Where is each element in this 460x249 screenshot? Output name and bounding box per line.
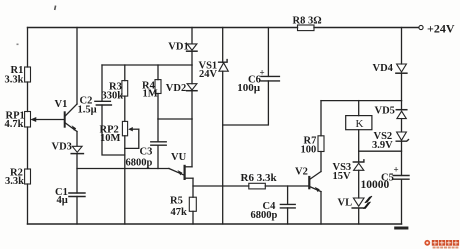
watermark text blocks bbox=[432, 240, 459, 246]
svg-text:+24V: +24V bbox=[427, 21, 455, 35]
diode VD4 bbox=[396, 64, 407, 73]
svg-text:V2: V2 bbox=[295, 166, 308, 177]
wire sub rail bbox=[102, 64, 192, 66]
wire VL to bottom rail bbox=[358, 208, 360, 224]
wire VS3 to VL bbox=[358, 170, 360, 198]
wire C5 to bottom rail bbox=[401, 179, 403, 224]
svg-text:3.9V: 3.9V bbox=[372, 140, 393, 151]
wire V2 emitter to bottom rail bbox=[320, 192, 322, 224]
wire C2 top to sub rail bbox=[101, 65, 103, 101]
wire R2 to bottom rail bbox=[27, 184, 29, 224]
wire VD1 to sub rail node bbox=[191, 51, 193, 65]
scan speck top bbox=[54, 5, 57, 10]
wire VS2 to C5 bbox=[401, 141, 403, 175]
wire RP1 to R2 bbox=[27, 127, 29, 169]
wire left rail segment R1 top bbox=[27, 28, 29, 68]
wire V1 collector to top rail bbox=[76, 28, 78, 105]
wire node to C3 bbox=[157, 119, 159, 142]
capacitor C3 bbox=[151, 142, 166, 145]
svg-text:15V: 15V bbox=[333, 171, 352, 182]
wire node A horizontal bbox=[321, 100, 402, 102]
wire top supply rail right of R8 bbox=[314, 27, 419, 29]
svg-text:3.3k: 3.3k bbox=[5, 176, 24, 187]
svg-text:VD5: VD5 bbox=[375, 106, 395, 117]
svg-text:+: + bbox=[394, 164, 399, 174]
watermark logo icon bbox=[424, 240, 430, 246]
svg-text:VD2: VD2 bbox=[166, 83, 186, 94]
wire VD5 to VS2 bbox=[401, 119, 403, 132]
wire VS1 anode to bottom rail bbox=[222, 71, 224, 224]
wire VS1 branch top bbox=[222, 28, 224, 63]
zener diode VS2 bbox=[396, 132, 408, 141]
resistor R3 bbox=[122, 81, 128, 97]
wire R4 bottom to node bbox=[157, 94, 159, 120]
resistor R5 bbox=[189, 197, 196, 211]
capacitor C6 bbox=[261, 76, 279, 81]
wire top supply rail left of R8 bbox=[28, 27, 298, 29]
diode VD5 bbox=[396, 110, 407, 119]
transistor V1 bbox=[65, 104, 77, 132]
diode VD2 bbox=[187, 84, 197, 91]
resistor R7 bbox=[318, 136, 324, 152]
wire VS1 line to C6 bottom bbox=[223, 81, 269, 125]
wire C2 bottom to RP2 line bbox=[102, 105, 125, 155]
wire C1 to bottom rail bbox=[76, 197, 78, 225]
svg-text:VD1: VD1 bbox=[168, 41, 188, 52]
svg-text:24V: 24V bbox=[199, 69, 218, 80]
wire R7 top stub bbox=[320, 101, 322, 136]
wire R4 node to VD2 node bbox=[158, 118, 192, 120]
svg-text:100: 100 bbox=[301, 145, 317, 156]
wire C4 top stub bbox=[287, 186, 289, 204]
wire R4 top stub bbox=[157, 65, 159, 80]
potentiometer RP2 bbox=[122, 121, 138, 148]
svg-text:VD4: VD4 bbox=[373, 63, 394, 74]
svg-text:100µ: 100µ bbox=[237, 82, 261, 94]
resistor R1 bbox=[25, 67, 31, 82]
wire relay K bottom to VS3 bbox=[358, 130, 360, 162]
transistor VU unijunction bbox=[169, 166, 193, 179]
wire VD2 top stub bbox=[191, 65, 193, 84]
svg-text:C3: C3 bbox=[140, 147, 153, 158]
svg-text:10000: 10000 bbox=[361, 179, 390, 191]
capacitor C1 bbox=[69, 193, 85, 197]
wire VD3 node to VU emitter bbox=[77, 168, 169, 170]
wire C3 bottom to emitter line bbox=[157, 145, 159, 168]
wire C4 to bottom rail bbox=[287, 208, 289, 224]
wire R3 top stub bbox=[124, 65, 126, 81]
svg-text:VL: VL bbox=[338, 197, 353, 208]
node +24V terminal bbox=[419, 25, 423, 29]
potentiometer RP1 bbox=[25, 112, 31, 128]
svg-text:+: + bbox=[260, 68, 265, 78]
wire V2 collector to R7 bbox=[320, 152, 322, 172]
wire R1 to RP1 bbox=[27, 82, 29, 112]
resistor R8 bbox=[298, 25, 315, 31]
svg-text:R8 3Ω: R8 3Ω bbox=[293, 16, 322, 27]
zener diode VS1 bbox=[219, 60, 229, 72]
wire VU node to R6 bbox=[193, 185, 249, 187]
wire RP2 lower line crossing bbox=[124, 136, 126, 224]
wire VD3 to C1 bbox=[76, 154, 78, 193]
wire R3 to RP2 bbox=[124, 96, 126, 121]
wire VU base1 down to R5 node bbox=[192, 178, 194, 197]
svg-text:VD3: VD3 bbox=[52, 142, 72, 153]
wire VU base2 up to VD2 node bbox=[191, 119, 193, 167]
wire bottom ground rail bbox=[28, 223, 402, 225]
svg-text:VU: VU bbox=[171, 152, 187, 163]
wire R5 to bottom rail bbox=[192, 211, 194, 224]
wire RP1 wiper to V1 base bbox=[30, 117, 63, 122]
svg-text:4.7k: 4.7k bbox=[5, 119, 24, 130]
wire VD2 bottom stub bbox=[191, 91, 193, 119]
ground symbol at rail end bbox=[396, 227, 407, 230]
diode VD3 bbox=[71, 146, 83, 153]
capacitor C2 bbox=[95, 101, 112, 105]
svg-text:K: K bbox=[356, 118, 364, 130]
svg-text:R5: R5 bbox=[170, 196, 183, 207]
svg-text:3.3k: 3.3k bbox=[5, 74, 24, 85]
wire VS3 node to VS2 node bbox=[359, 150, 402, 152]
wire V1 emitter to VD3 bbox=[76, 132, 78, 147]
capacitor C4 bbox=[280, 204, 295, 208]
resistor R6 bbox=[249, 183, 265, 189]
wire VD1 top stub bbox=[191, 28, 193, 44]
svg-text:6800p: 6800p bbox=[126, 158, 153, 169]
resistor R4 bbox=[155, 80, 161, 94]
svg-text:R6 3.3k: R6 3.3k bbox=[241, 172, 278, 184]
transistor V2 bbox=[309, 172, 321, 193]
svg-text:1.5µ: 1.5µ bbox=[78, 104, 97, 115]
wire R6 to V2 base bbox=[265, 185, 309, 187]
wire VD4 to node A bbox=[401, 73, 403, 100]
wire node A to VD5 bbox=[401, 101, 403, 110]
zener diode VS3 bbox=[353, 160, 364, 171]
svg-text:V1: V1 bbox=[55, 99, 68, 110]
resistor R2 bbox=[25, 169, 31, 184]
svg-text:4µ: 4µ bbox=[57, 195, 68, 206]
LED VL bbox=[352, 196, 372, 208]
svg-text:1M: 1M bbox=[143, 89, 158, 100]
relay K coil box bbox=[346, 116, 372, 130]
svg-text:10M: 10M bbox=[100, 133, 121, 144]
svg-text:330k: 330k bbox=[102, 90, 124, 101]
wire relay K top stub bbox=[358, 101, 360, 116]
capacitor C5 bbox=[393, 176, 409, 180]
diode VD1 bbox=[187, 44, 197, 51]
wire C6 top to supply rail bbox=[267, 28, 269, 77]
wire VD4 top stub bbox=[401, 28, 403, 65]
svg-text:47k: 47k bbox=[171, 207, 188, 218]
svg-text:6800p: 6800p bbox=[251, 210, 278, 221]
scan speck left bbox=[17, 44, 19, 46]
